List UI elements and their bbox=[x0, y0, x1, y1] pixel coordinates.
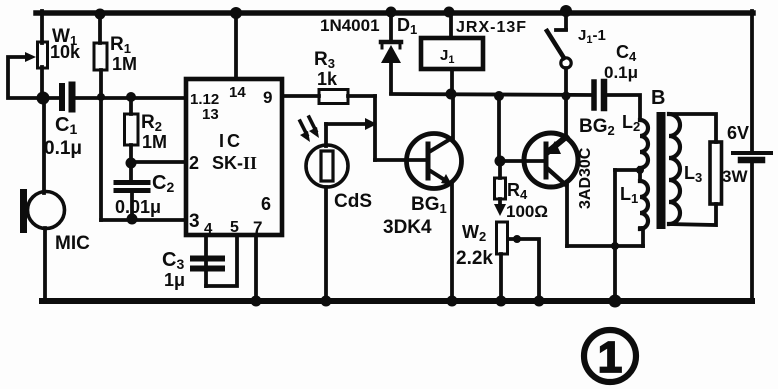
wire R1 bottom lead bbox=[99, 70, 103, 98]
wire BG2 collector to L1 bottom bbox=[567, 244, 643, 248]
svg-text:1M: 1M bbox=[112, 54, 137, 74]
junction BG2 base bbox=[495, 156, 506, 167]
wire W2 bottom lead bbox=[499, 254, 503, 301]
resistor R1 body bbox=[94, 43, 107, 70]
svg-text:C1: C1 bbox=[55, 114, 77, 137]
svg-text:L1: L1 bbox=[620, 184, 638, 206]
svg-text:1k: 1k bbox=[317, 69, 338, 89]
wire IC pin 7 lead to ground bbox=[254, 235, 258, 301]
capacitor C3 bottom plate bbox=[193, 266, 222, 272]
switch J1-1 contact circle bbox=[561, 58, 571, 68]
svg-text:BG1: BG1 bbox=[411, 194, 447, 216]
svg-text:C3: C3 bbox=[162, 249, 184, 272]
wire vertical branch x=101 bus to pin3 line bbox=[99, 98, 103, 220]
resistor R4 body bbox=[495, 178, 506, 199]
svg-text:JRX-13F: JRX-13F bbox=[456, 19, 527, 36]
capacitor C4 left plate bbox=[591, 82, 597, 108]
svg-text:14: 14 bbox=[229, 84, 246, 101]
wire C1 to IC pin 1.12.13 bbox=[76, 96, 186, 100]
wire BG2 collector down bbox=[565, 184, 569, 246]
wire C2 bottom lead bbox=[130, 193, 134, 220]
junction BG1 emitter ground bbox=[447, 296, 458, 307]
resistor W2 body bbox=[497, 222, 508, 254]
wire L1 bottom lead bbox=[641, 228, 645, 246]
junction R2 top bbox=[126, 92, 136, 102]
wire switch to node bbox=[564, 68, 568, 96]
svg-text:1M: 1M bbox=[142, 132, 167, 152]
svg-text:SK-II: SK-II bbox=[212, 153, 257, 173]
capacitor C1 right plate bbox=[69, 85, 76, 109]
wire R4 bottom lead with arrow into W2 bbox=[498, 199, 502, 209]
junction node A (W1/C1/MIC) bbox=[37, 92, 50, 105]
light arrow 2 at CdS bbox=[309, 117, 316, 131]
diode D1 cathode bar bbox=[381, 40, 401, 45]
svg-text:J1: J1 bbox=[440, 47, 454, 66]
svg-text:2: 2 bbox=[189, 153, 199, 173]
wiper arrowhead of W1 bbox=[25, 52, 36, 62]
junction relay top rail bbox=[444, 7, 455, 18]
relay coil J1 box bbox=[421, 38, 483, 69]
svg-text:CdS: CdS bbox=[334, 191, 372, 212]
battery 6V short plate bbox=[741, 157, 762, 164]
wire right rail lower (battery -) bbox=[750, 163, 754, 301]
wire IC pin 4 lead bbox=[204, 235, 208, 286]
svg-text:D1: D1 bbox=[397, 15, 417, 37]
wire pin4-pin5 bottom U bbox=[206, 235, 237, 286]
speaker 3W body bbox=[710, 142, 722, 204]
wire right rail upper (battery +) bbox=[750, 11, 754, 151]
wire W1 wiper arm bbox=[8, 57, 41, 98]
junction L2/L1 tap bbox=[636, 166, 644, 174]
svg-text:0.01μ: 0.01μ bbox=[115, 197, 161, 217]
svg-text:R1: R1 bbox=[110, 34, 131, 56]
wire R2 bottom lead bbox=[129, 145, 133, 163]
svg-text:10k: 10k bbox=[50, 42, 81, 62]
transistor BG2 emitter diagonal (arrow in, PNP) bbox=[549, 137, 566, 151]
wire left rail upper bbox=[40, 11, 44, 43]
wire W2 side tap bbox=[508, 239, 539, 301]
wire R4 top lead bbox=[498, 162, 502, 178]
junction R4 branch top bbox=[494, 91, 504, 101]
junction pin7 ground bbox=[251, 296, 262, 307]
switch J1-1 blade bbox=[547, 31, 564, 58]
wire C4 to L2 corner bbox=[607, 95, 640, 120]
svg-text:13: 13 bbox=[202, 106, 219, 123]
svg-text:L2: L2 bbox=[622, 112, 640, 134]
wire L3 bottom to speaker bbox=[669, 204, 716, 225]
junction tap/collector cross bbox=[611, 242, 619, 250]
wire R4 branch vertical from node bbox=[497, 95, 501, 162]
svg-text:J1-1: J1-1 bbox=[578, 27, 606, 46]
junction D1 top rail bbox=[386, 7, 397, 18]
svg-text:R4: R4 bbox=[507, 180, 528, 202]
transistor BG1 base bar bbox=[426, 144, 431, 178]
svg-text:6: 6 bbox=[261, 194, 271, 214]
svg-text:C2: C2 bbox=[152, 172, 174, 195]
microphone MIC body circle bbox=[28, 192, 65, 229]
wire pin 3 line bbox=[101, 218, 186, 222]
junction CdS ground bbox=[321, 296, 332, 307]
svg-text:3AD30C: 3AD30C bbox=[577, 147, 594, 209]
transistor Q1 BG1 circle bbox=[407, 134, 462, 189]
capacitor C2 bottom plate bbox=[116, 188, 148, 193]
junction transformer tap ground bbox=[609, 295, 622, 308]
svg-text:BG2: BG2 bbox=[579, 116, 615, 138]
resistor W1 body bbox=[38, 42, 48, 68]
wire CdS branch horizontal bbox=[326, 122, 370, 126]
svg-text:100Ω: 100Ω bbox=[506, 202, 548, 221]
wire relay top lead bbox=[449, 13, 453, 38]
svg-text:1N4001: 1N4001 bbox=[320, 16, 380, 35]
svg-text:W2: W2 bbox=[462, 222, 486, 244]
wire bottom ground rail bbox=[42, 298, 752, 304]
svg-text:9: 9 bbox=[263, 88, 272, 107]
wire R3 right lead bbox=[348, 94, 375, 98]
junction D1/relay/collector node bbox=[446, 89, 457, 100]
op-amp/IC U1 SK-II box bbox=[186, 79, 282, 235]
junction R1 bottom bbox=[97, 93, 105, 101]
switch J1-1 stub bbox=[564, 13, 568, 29]
inductor L3 secondary winding bbox=[669, 114, 680, 224]
junction W2 tap bbox=[513, 235, 521, 243]
diode D1 triangle bbox=[381, 45, 401, 63]
junction W2 tap ground bbox=[534, 296, 545, 307]
svg-text:2.2k: 2.2k bbox=[456, 248, 493, 269]
wire L2 to L1 bbox=[638, 168, 642, 181]
wire L2-L1 tap bbox=[615, 168, 640, 172]
svg-text:0.1μ: 0.1μ bbox=[44, 138, 82, 159]
svg-text:0.1μ: 0.1μ bbox=[604, 63, 638, 82]
wire pin 2 line bbox=[131, 160, 186, 164]
battery 6V long plate bbox=[733, 151, 771, 155]
junction pin14 top rail bbox=[230, 7, 242, 19]
wire left rail W1 to node A bbox=[40, 67, 44, 99]
wire relay bottom lead bbox=[450, 69, 454, 94]
wire tap to ground bbox=[613, 170, 617, 301]
wire CdS top lead bbox=[324, 124, 328, 146]
wire C2 top lead bbox=[129, 163, 133, 180]
svg-text:1: 1 bbox=[598, 333, 622, 382]
svg-text:L3: L3 bbox=[684, 163, 702, 185]
wire D1 bottom lead bbox=[389, 62, 393, 93]
transistor BG2 emitter arrowhead bbox=[546, 141, 561, 154]
wire BG2 base lead bbox=[499, 159, 545, 163]
wire node A to C1 bbox=[43, 96, 58, 100]
microphone MIC side bar bbox=[20, 189, 27, 233]
wire BG1 base lead bbox=[375, 158, 427, 162]
inductor L1 primary winding bbox=[640, 181, 648, 229]
svg-text:7: 7 bbox=[253, 218, 262, 237]
wire IC pin 14 lead bbox=[234, 13, 238, 79]
light arrow 1 at CdS bbox=[300, 121, 307, 135]
wire BG1 collector vertical bbox=[451, 94, 455, 138]
junction C2 bottom / pin3 bbox=[127, 214, 138, 225]
wire top supply rail bbox=[36, 10, 753, 16]
wire R1 top lead bbox=[98, 13, 102, 43]
transformer B core bbox=[657, 112, 666, 229]
wire L1 end jog bbox=[640, 226, 643, 230]
wire R2 top lead bbox=[129, 97, 133, 114]
wire vertical R3 to BG1 base bbox=[373, 96, 377, 160]
svg-text:1μ: 1μ bbox=[164, 270, 185, 290]
junction W2 bottom ground bbox=[496, 296, 507, 307]
arrowhead R4 to W2 bbox=[494, 204, 506, 216]
svg-text:6V: 6V bbox=[727, 123, 749, 143]
photoresistor CdS inner element bbox=[321, 151, 333, 181]
svg-text:C4: C4 bbox=[616, 42, 637, 64]
wire MIC to ground rail bbox=[43, 228, 47, 301]
junction switch top rail bbox=[560, 5, 572, 17]
photoresistor CdS circle bbox=[306, 145, 348, 187]
wire node line D1/relay/collector to switch bbox=[391, 94, 592, 95]
switch J1-1 fixed tick bbox=[556, 28, 566, 32]
capacitor C4 right plate bbox=[601, 82, 608, 108]
svg-text:R2: R2 bbox=[141, 112, 162, 134]
inductor L2 primary winding bbox=[640, 120, 648, 168]
resistor R2 body bbox=[125, 114, 139, 145]
resistor R3 body bbox=[319, 90, 348, 104]
svg-text:MIC: MIC bbox=[55, 233, 90, 254]
junction R1 top bbox=[95, 9, 106, 20]
transistor BG1 emitter arrowhead bbox=[441, 174, 452, 185]
junction R2 bottom / pin2 bbox=[126, 158, 137, 169]
arrowhead on CdS branch bbox=[365, 118, 377, 130]
svg-text:4: 4 bbox=[204, 220, 213, 237]
svg-text:3DK4: 3DK4 bbox=[383, 217, 432, 238]
wire switch node down to BG2 emitter bbox=[564, 96, 568, 138]
figure number 1 circled bbox=[584, 330, 636, 382]
capacitor C3 top plate bbox=[193, 256, 222, 262]
transistor BG2 base bar bbox=[544, 144, 549, 177]
wire L3 top to speaker bbox=[669, 114, 716, 142]
wire CdS bottom lead to ground bbox=[324, 187, 328, 301]
capacitor C1 left plate bbox=[59, 86, 65, 108]
wire BG1 emitter to ground bbox=[450, 184, 454, 301]
svg-text:B: B bbox=[651, 87, 665, 109]
svg-text:3: 3 bbox=[189, 211, 200, 232]
diode D1 top lead bbox=[389, 13, 393, 41]
transistor Q2 BG2 circle bbox=[524, 133, 578, 187]
capacitor C2 top plate bbox=[116, 180, 148, 185]
svg-text:IC: IC bbox=[219, 131, 243, 151]
wire IC pin 9 lead to R3 bbox=[282, 94, 319, 98]
transistor BG1 collector diagonal bbox=[429, 138, 452, 152]
junction switch node bbox=[562, 92, 571, 101]
transistor BG1 emitter diagonal bbox=[429, 170, 451, 184]
transistor BG2 collector diagonal bbox=[548, 169, 566, 185]
svg-text:3W: 3W bbox=[722, 167, 748, 186]
svg-text:5: 5 bbox=[230, 219, 239, 236]
wire node A to MIC bbox=[42, 98, 46, 193]
svg-text:R3: R3 bbox=[314, 49, 335, 71]
